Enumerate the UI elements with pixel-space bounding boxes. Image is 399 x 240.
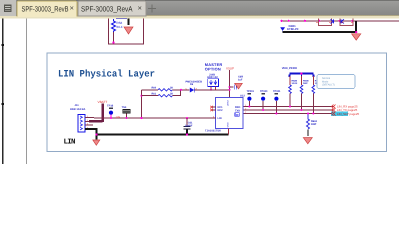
svg-text:OPTION: OPTION <box>205 66 221 71</box>
svg-text:220PF: 220PF <box>185 124 193 127</box>
svg-text:TXD: TXD <box>235 110 240 113</box>
svg-text:SPF-30003_RevA: SPF-30003_RevA <box>81 4 133 13</box>
svg-text:2K: 2K <box>170 93 173 96</box>
svg-text:TP020: TP020 <box>260 90 268 93</box>
svg-text:PMEG2005EB: PMEG2005EB <box>186 80 203 83</box>
svg-text:TS4: TS4 <box>122 106 127 109</box>
svg-text:2K: 2K <box>170 87 173 90</box>
svg-text:U12: U12 <box>240 94 245 97</box>
svg-text:VSUP: VSUP <box>226 100 229 106</box>
svg-text:TP019: TP019 <box>247 90 255 93</box>
svg-text:1uF: 1uF <box>238 78 243 81</box>
svg-text:DNP: DNP <box>303 82 308 85</box>
svg-text:page25: page25 <box>350 112 360 116</box>
svg-text:TP021: TP021 <box>273 90 281 93</box>
svg-text:VDD_PERH: VDD_PERH <box>282 66 297 70</box>
svg-text:VBATT: VBATT <box>98 100 108 104</box>
svg-text:(DEFAULT): (DEFAULT) <box>322 84 335 87</box>
svg-text:TJA1021T/20: TJA1021T/20 <box>205 130 221 133</box>
svg-text:LIN: LIN <box>116 115 120 119</box>
svg-text:GND: GND <box>226 123 229 128</box>
svg-text:60.4: 60.4 <box>117 25 123 29</box>
svg-text:×: × <box>138 3 142 12</box>
svg-text:NC2: NC2 <box>218 109 224 112</box>
svg-text:LIN Physical Layer: LIN Physical Layer <box>58 69 155 80</box>
svg-text:SPF-30003_RevB: SPF-30003_RevB <box>22 4 69 13</box>
svg-text:R61: R61 <box>152 93 157 96</box>
svg-text:LIN: LIN <box>218 117 222 120</box>
svg-text:J11: J11 <box>75 104 80 107</box>
svg-text:10.0K: 10.0K <box>292 82 298 85</box>
svg-text:LIN: LIN <box>64 139 76 147</box>
svg-text:R62B: R62B <box>292 80 298 83</box>
svg-text:×: × <box>70 3 74 12</box>
svg-text:R60: R60 <box>152 87 157 90</box>
svg-text:V5UP: V5UP <box>226 66 234 70</box>
svg-text:R63B: R63B <box>303 80 309 83</box>
svg-text:HDR 1X4 RA: HDR 1X4 RA <box>70 108 86 111</box>
svg-text:DNP: DNP <box>311 123 317 126</box>
svg-text:KT6E-PF: KT6E-PF <box>287 27 299 31</box>
svg-text:LIN_SLP: LIN_SLP <box>337 112 349 116</box>
svg-text:TP16: TP16 <box>107 105 114 108</box>
